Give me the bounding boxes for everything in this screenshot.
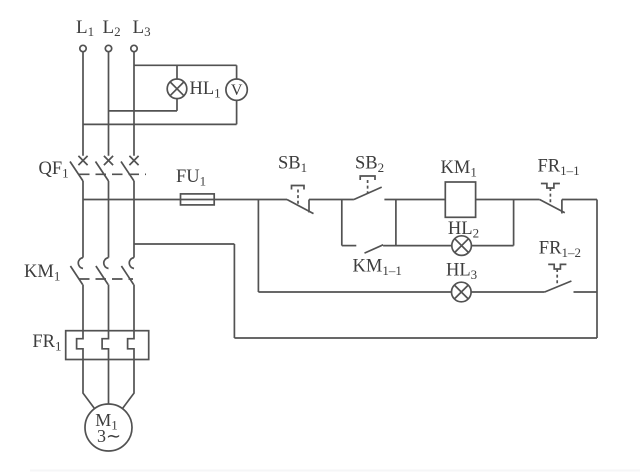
svg-text:V: V <box>231 82 243 99</box>
svg-text:3∼: 3∼ <box>97 426 121 446</box>
